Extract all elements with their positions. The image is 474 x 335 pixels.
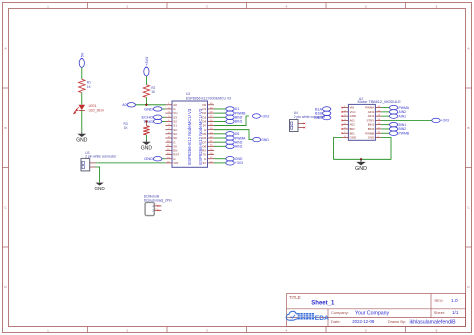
U2 right pins (365, 106, 381, 140)
connector U4 body (290, 120, 299, 132)
wire R1 to LED1 (81, 93, 83, 105)
ground below U3 (94, 182, 105, 191)
svg-text:1K: 1K (124, 126, 129, 130)
svg-text:3: 3 (206, 4, 208, 8)
wire ESP pin D8 (214, 145, 226, 147)
wire net A0 row (136, 104, 166, 106)
power flag +3V3 (144, 57, 149, 76)
svg-text:GND: GND (141, 146, 153, 152)
op-amp U2 TB6612 module body (348, 104, 375, 140)
svg-text:6: 6 (436, 4, 438, 8)
op-amp U1 ESP8266 NodeMCU body (172, 101, 208, 167)
wire ESP pin D2 (214, 112, 226, 114)
DC motor pin 2 (152, 209, 161, 213)
net label BIN1 at U2 (389, 122, 406, 126)
svg-text:R1: R1 (87, 80, 91, 84)
svg-text:1: 1 (47, 329, 49, 333)
svg-text:VIN: VIN (173, 161, 178, 165)
svg-text:R3: R3 (124, 122, 128, 126)
wire U2 pin BIN2 (382, 128, 390, 130)
svg-text:4: 4 (285, 4, 287, 8)
wire U2 STBY to +3V3 (382, 119, 432, 121)
svg-text:GND: GND (144, 156, 153, 161)
wire U2 pin AIN2 (382, 111, 390, 113)
svg-text:+3V3: +3V3 (235, 161, 243, 165)
svg-text:GND: GND (94, 186, 105, 191)
svg-text:1/1: 1/1 (452, 310, 459, 315)
svg-text:A: A (4, 46, 6, 50)
net label GND at ESP pin G lower (144, 156, 165, 161)
junction TRIG node (145, 120, 147, 122)
svg-text:ikhlasulamalefendiB: ikhlasulamalefendiB (410, 319, 457, 325)
net label ECHO (141, 115, 165, 120)
svg-text:1K: 1K (151, 90, 156, 94)
svg-text:GND: GND (76, 138, 88, 144)
net label B1A (315, 107, 331, 112)
svg-text:PWMB: PWMB (399, 131, 410, 135)
ground below U2 (355, 159, 367, 172)
power flag 5V (79, 52, 84, 67)
net label A0 (122, 103, 135, 108)
wire ESP pin D5 (214, 133, 226, 135)
U4 pin 1 (298, 123, 305, 125)
net label BIN2 at U2 (389, 127, 406, 131)
net label BIN1 (226, 119, 243, 123)
svg-text:ESP8266-E12 NODEMCU V3: ESP8266-E12 NODEMCU V3 (186, 96, 231, 100)
svg-text:ESP8266-E12 NodeMCU V3: ESP8266-E12 NodeMCU V3 (187, 108, 192, 165)
net label TRIG (143, 119, 165, 124)
wire ESP pin D3 (214, 116, 226, 118)
title block Company row (331, 310, 459, 316)
svg-text:2: 2 (126, 329, 128, 333)
svg-text:D: D (467, 285, 470, 289)
svg-text:1K: 1K (87, 85, 92, 89)
U3 pin 1 (90, 162, 96, 164)
wire ESP pin 3V (214, 162, 226, 164)
wire U2 pin AIN1 (382, 115, 390, 117)
svg-text:C: C (4, 205, 7, 209)
svg-text:Drawn By:: Drawn By: (388, 319, 406, 324)
svg-text:C: C (467, 205, 470, 209)
svg-text:6: 6 (436, 329, 438, 333)
title block Date row (331, 319, 456, 325)
svg-text:5V: 5V (80, 52, 84, 57)
net label +3V3 (226, 161, 243, 165)
U1 right pins (202, 103, 214, 165)
wire ESP G pin to GND flag (214, 130, 253, 140)
U4 pin 2 (298, 127, 305, 129)
wire R3 to ground (145, 135, 147, 140)
svg-text:R2: R2 (151, 86, 155, 90)
net label D1 (226, 107, 240, 111)
svg-text:2022-12-08: 2022-12-08 (352, 319, 375, 324)
svg-text:AIN1: AIN1 (235, 145, 243, 149)
wire ESP pin D4 (214, 120, 226, 122)
svg-text:+3V3: +3V3 (261, 114, 269, 118)
wire ESP pin G (214, 158, 226, 160)
svg-text:B: B (467, 126, 469, 130)
junction node A0 (145, 104, 147, 106)
wire ESP pin D6 (214, 137, 226, 139)
wire ESP pin D1 (214, 108, 226, 110)
wire LED1 to ground (81, 110, 83, 131)
LED LED1 LED_3014 (74, 104, 104, 114)
net label PWMB (226, 111, 246, 115)
U2 left pins (341, 106, 356, 140)
logo JLC EDA text (298, 313, 329, 322)
svg-text:TITLE:: TITLE: (289, 295, 302, 300)
svg-text:D: D (4, 285, 7, 289)
svg-text:GND: GND (350, 136, 356, 140)
svg-text:Sheet:: Sheet: (434, 310, 445, 315)
junction U2 ground (360, 158, 362, 160)
svg-text:Your Company: Your Company (355, 310, 390, 316)
svg-text:GND: GND (355, 166, 367, 172)
net label +3V3 at STBY (432, 118, 449, 122)
wire U3 pin2 to ground (96, 167, 100, 182)
svg-text:TRIG: TRIG (143, 119, 153, 124)
wire R2 to node A0 (145, 97, 147, 104)
svg-text:EDA: EDA (315, 315, 329, 322)
net label D5 (226, 132, 240, 136)
ground below LED1 (76, 132, 88, 144)
wire U2 pin PWMB (382, 132, 390, 134)
net label AIN2 at U2 (389, 110, 406, 114)
connector U3 body (81, 158, 90, 171)
logo EDA cloud (286, 311, 299, 320)
svg-text:GND: GND (261, 138, 269, 142)
net label B1B (315, 111, 331, 116)
title block frame (287, 294, 466, 327)
svg-text:Date:: Date: (331, 319, 341, 324)
wire +3V3 to R2 (145, 76, 147, 85)
svg-text:A: A (467, 46, 469, 50)
title block REV (435, 298, 459, 304)
connector DC motor body (145, 202, 154, 215)
wire U2 ground loop (334, 137, 391, 159)
U1 left pins (166, 103, 180, 165)
svg-text:5: 5 (365, 329, 367, 333)
svg-text:REV:: REV: (435, 298, 444, 303)
svg-text:AIN1: AIN1 (399, 114, 407, 118)
ground below R3 (141, 140, 153, 152)
net label PWMA at U2 (389, 105, 409, 109)
svg-text:LED1: LED1 (89, 104, 97, 108)
svg-text:5: 5 (365, 4, 367, 8)
resistor R1 (79, 79, 92, 92)
svg-text:GND: GND (314, 116, 323, 120)
svg-text:4: 4 (285, 329, 287, 333)
net label GND right of ESP (253, 137, 270, 141)
net label AIN2 (226, 140, 243, 144)
svg-text:1.0: 1.0 (451, 298, 458, 304)
svg-text:3V: 3V (203, 161, 207, 165)
svg-text:+3V3: +3V3 (441, 119, 449, 123)
wire 5V to R1 (81, 67, 83, 79)
svg-text:Sheet_1: Sheet_1 (311, 301, 335, 307)
net label PWMB at U2 (389, 131, 409, 135)
DC motor pin 1 (152, 204, 161, 208)
svg-text:BIN1: BIN1 (235, 120, 243, 124)
wire ESP 3V pin to +3V3 flag (214, 116, 249, 126)
net label AIN1 at U2 (389, 114, 406, 118)
svg-text:B: B (4, 126, 6, 130)
svg-text:GND: GND (368, 136, 374, 140)
net label +3V3 right of ESP (252, 114, 269, 118)
resistor R3 (124, 121, 150, 134)
wire U3 pin1 to ESP VIN (96, 162, 166, 164)
svg-text:3: 3 (206, 329, 208, 333)
svg-text:+3V3: +3V3 (145, 57, 149, 66)
net label GND near U4 (314, 115, 331, 120)
net label AIN1 (226, 144, 243, 148)
svg-text:Motor TB6612_MODULE: Motor TB6612_MODULE (358, 99, 402, 104)
net label BIN2 (226, 115, 243, 119)
svg-text:2: 2 (126, 4, 128, 8)
net label GND (226, 157, 243, 161)
svg-text:1: 1 (47, 4, 49, 8)
svg-text:LED_3014: LED_3014 (89, 108, 104, 112)
U3 pin 2 (90, 166, 96, 168)
wire U2 pin BIN1 (382, 124, 390, 126)
resistor R2 (143, 85, 156, 98)
net label GND at ESP pin G (144, 106, 165, 111)
svg-text:Company:: Company: (331, 310, 349, 315)
wire ESP pin D7 (214, 141, 226, 143)
svg-text:A0: A0 (122, 103, 126, 107)
net label PWMA (226, 136, 246, 140)
wire U2 pin PWMA (382, 107, 390, 109)
svg-text:GND: GND (144, 106, 153, 111)
